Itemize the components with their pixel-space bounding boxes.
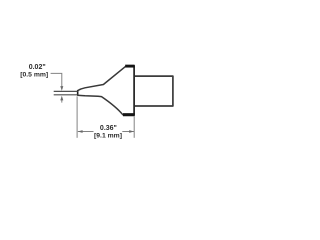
- svg-text:[0.5 mm]: [0.5 mm]: [20, 72, 48, 79]
- dim line right with arrow: [122, 131, 134, 133]
- up arrow stub: [61, 99, 63, 102]
- shank cylinder: [134, 76, 173, 106]
- leader from 0.02 label: [51, 73, 62, 86]
- down arrow: [60, 86, 63, 91]
- dim 0.36 extension line right: [133, 116, 135, 138]
- cone base face: [133, 65, 135, 115]
- dim line left with arrow: [78, 131, 94, 133]
- dim 0.36 extension line left: [76, 96, 78, 137]
- svg-text:[9.1 mm]: [9.1 mm]: [94, 132, 122, 139]
- dim 0.02 extension line top: [54, 90, 78, 92]
- dim 0.02 extension line bottom: [54, 94, 78, 96]
- svg-text:0.02": 0.02": [29, 64, 46, 71]
- bottom shoulder band: [123, 113, 135, 116]
- tip end face: [77, 90, 79, 95]
- top shoulder band: [125, 65, 134, 68]
- soldering tip body outline: [78, 66, 135, 115]
- svg-text:0.36": 0.36": [100, 125, 117, 132]
